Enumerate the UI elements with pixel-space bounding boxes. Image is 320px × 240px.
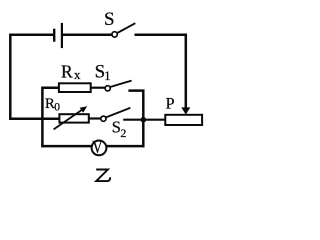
- switch S1 contact circle: [105, 86, 110, 91]
- junction node (dot): [141, 117, 147, 123]
- wire: junction to P left terminal: [143, 119, 165, 121]
- svg-text:0: 0: [54, 101, 60, 113]
- battery positive plate (long): [61, 23, 63, 48]
- battery negative plate (short): [53, 29, 55, 42]
- switch S2 contact circle: [101, 116, 106, 121]
- svg-text:V: V: [92, 139, 103, 158]
- caption 乙 (drawn as path): [96, 170, 110, 182]
- wire: R0 to switch S2: [89, 117, 101, 119]
- wire: bottom loop through voltmeter: [41, 145, 144, 148]
- potentiometer P body: [165, 115, 202, 125]
- switch S2 lever (open): [106, 108, 130, 118]
- potentiometer P wiper arrowhead: [181, 107, 190, 114]
- switch S1 lever (open): [110, 81, 131, 87]
- rheostat R0 arrow shaft: [54, 109, 84, 129]
- svg-text:R: R: [61, 61, 73, 81]
- wire: battery to switch S: [63, 33, 112, 36]
- rheostat R0 box: [59, 114, 88, 122]
- wire: switch S to top-right corner and right vertical down to wiper: [135, 35, 186, 109]
- wire: Rx to switch S1: [91, 87, 106, 89]
- svg-text:S: S: [104, 9, 115, 30]
- wire: S2 to junction: [123, 119, 143, 121]
- voltmeter V body: [92, 141, 107, 156]
- rheostat R0 arrowhead: [80, 106, 88, 113]
- svg-text:x: x: [74, 67, 81, 82]
- resistor Rx box: [59, 83, 91, 92]
- wire: left bus (Rx branch corner down to bottom wire): [42, 88, 59, 148]
- wire: S1 to right bus, right bus down to bottom wire: [128, 91, 143, 148]
- svg-text:P: P: [166, 95, 175, 112]
- svg-text:1: 1: [104, 68, 111, 83]
- svg-text:2: 2: [120, 126, 126, 140]
- switch S contact circle: [112, 32, 117, 37]
- wire: left loop (top-left corner, left vertical, main horizontal into R0): [10, 35, 59, 119]
- switch S lever (open): [117, 23, 135, 33]
